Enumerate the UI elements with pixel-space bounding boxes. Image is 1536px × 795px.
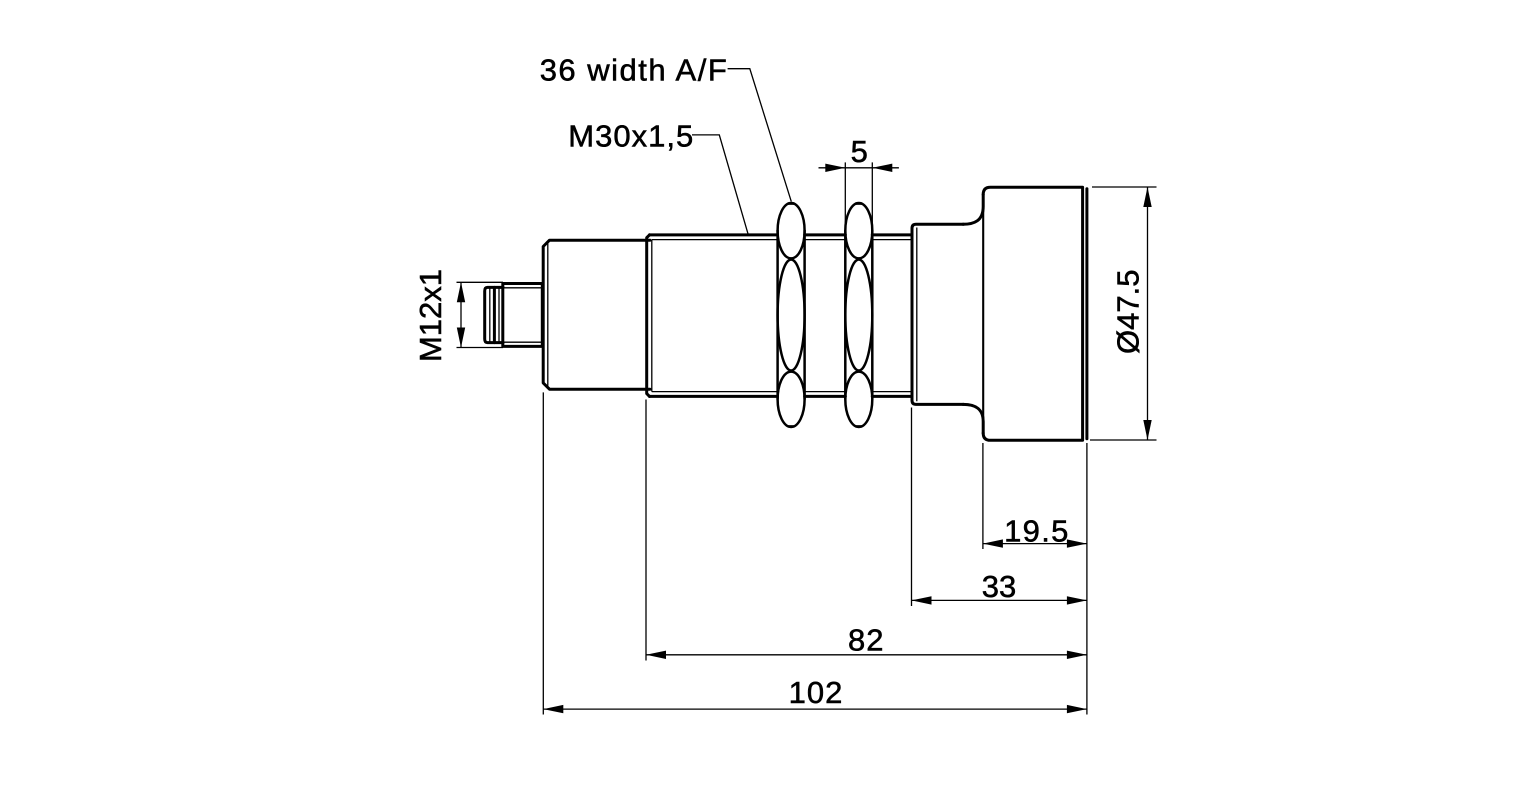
head rear face (982, 196, 984, 432)
fillet S-curve top (step cylinder to head) (963, 195, 983, 225)
leader for M30x1,5 (692, 135, 748, 234)
hex nut 1 middle facet (778, 260, 805, 371)
dimension 5 (locknut width) (819, 162, 899, 230)
dimension 33 (912, 408, 1087, 607)
svg-text:M30x1,5: M30x1,5 (568, 119, 694, 154)
hex nut 1 (36 A/F) edges (778, 230, 805, 400)
svg-text:102: 102 (789, 675, 844, 710)
svg-text:82: 82 (848, 623, 884, 658)
dimension 102 (543, 392, 1087, 714)
hex nut 2 bottom facet (845, 372, 872, 427)
svg-text:M12x1: M12x1 (413, 269, 448, 362)
fillet S-curve bottom (963, 404, 983, 433)
rear housing body (543, 240, 650, 389)
dimension 82 (646, 400, 1087, 661)
svg-text:33: 33 (982, 569, 1016, 604)
M12 connector collar (503, 284, 543, 347)
hex nut 2 (locknut) edges (845, 230, 872, 400)
thread root lines (minor diameter) (652, 240, 912, 392)
dimension Ø47.5 (vertical, right) (1090, 187, 1157, 440)
dimension M12x1 (vertical, left) (457, 282, 504, 347)
svg-text:Ø47.5: Ø47.5 (1111, 270, 1146, 354)
svg-text:36 width A/F: 36 width A/F (540, 52, 729, 87)
svg-text:19.5: 19.5 (1004, 514, 1070, 549)
svg-text:5: 5 (851, 134, 868, 169)
hex nut 2 top facet (845, 203, 872, 258)
hex nut 2 middle facet (845, 260, 872, 371)
leader for 36 width A/F (728, 69, 792, 202)
thread section M30 end face (647, 235, 652, 397)
hex nut 1 top facet (778, 203, 805, 258)
hex nut 1 bottom facet (778, 372, 805, 427)
dimension 19.5 (983, 443, 1087, 715)
step cylinder between thread and head (912, 224, 964, 404)
transducer head outline (983, 187, 1087, 440)
M12 connector plug thread (485, 287, 503, 342)
thread crest lines (major diameter) (650, 235, 913, 397)
